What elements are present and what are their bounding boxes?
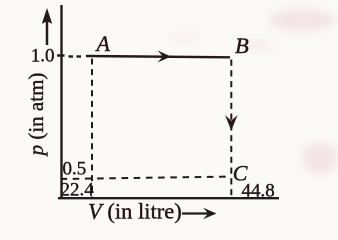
svg-text:A: A — [95, 31, 111, 56]
svg-text:22.4: 22.4 — [61, 180, 95, 201]
svg-text:C: C — [233, 160, 248, 185]
svg-text:0.5: 0.5 — [63, 159, 87, 180]
svg-text:1.0: 1.0 — [31, 46, 55, 67]
svg-text:V (in litre): V (in litre) — [88, 199, 182, 224]
svg-text:B: B — [235, 33, 249, 58]
svg-text:p (in atm): p (in atm) — [24, 73, 48, 158]
